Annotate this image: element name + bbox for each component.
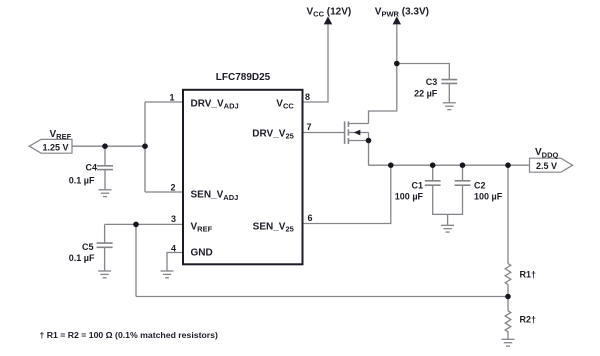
wire C1 top [432, 165, 434, 180]
junction node rail-R1 [505, 162, 511, 168]
svg-text:C1: C1 [411, 181, 423, 191]
IC U1 LFC789D25 body [183, 90, 303, 264]
ground under pin4 GND [161, 271, 174, 278]
svg-text:4: 4 [171, 244, 176, 254]
wire C4 top [104, 146, 106, 165]
transistor Q1 drain stub [348, 123, 368, 125]
output port VDDQ 2.5V [530, 158, 573, 172]
svg-text:C5: C5 [82, 242, 94, 252]
transistor Q1 body stub [348, 132, 368, 134]
wire output rail [369, 164, 530, 166]
svg-text:R1†: R1† [520, 270, 537, 280]
svg-text:C3: C3 [426, 77, 438, 87]
ground under R2 [502, 339, 515, 346]
wire C5 top [104, 224, 106, 242]
input port VREF 1.25V [29, 139, 72, 153]
wire R2 to ground [507, 331, 509, 339]
junction node R1-R2 feedback [505, 294, 511, 300]
wire pin8 to VCC [303, 25, 329, 103]
capacitor C3 plates [441, 80, 457, 84]
wire pin2 [145, 191, 183, 193]
wire C1 C2 bottoms joined to ground [433, 186, 463, 215]
svg-text:100 µF: 100 µF [395, 192, 424, 202]
wire rail to R1 [507, 165, 509, 263]
capacitor C4 plates [97, 166, 113, 170]
svg-text:GND: GND [191, 248, 213, 259]
svg-text:1.25 V: 1.25 V [43, 143, 69, 153]
wire pin4 to ground [167, 253, 183, 272]
resistor R1 zigzag [505, 264, 511, 285]
svg-text:0.1 µF: 0.1 µF [69, 176, 95, 186]
wire pin1 to vertical bus [145, 101, 183, 103]
power arrow VPWR [393, 16, 401, 24]
junction node rail-C2 [460, 162, 466, 168]
junction node VPWR-C3 [394, 61, 400, 67]
wire C3 bottom to ground [448, 84, 450, 103]
junction node rail-pin6 [388, 162, 394, 168]
transistor Q1 channel bars [347, 121, 349, 144]
wire R1 to node [507, 284, 509, 296]
wire VPWR node to C3 [397, 64, 450, 80]
junction node source-body [366, 138, 372, 144]
wire pin7 to gate [303, 132, 345, 134]
wire vertical bus pin1-pin2 [144, 102, 146, 192]
wire feedback vertical from pin3 node [135, 224, 137, 296]
svg-text:1: 1 [169, 93, 174, 103]
svg-text:C4: C4 [85, 163, 97, 173]
transistor Q1 source stub [348, 140, 368, 142]
capacitor C2 plates [455, 181, 471, 185]
capacitor C1 plates [425, 181, 441, 185]
junction node VREF-bus [142, 143, 148, 149]
svg-text:8: 8 [305, 92, 310, 102]
ground under C3 [443, 103, 456, 110]
svg-text:2: 2 [170, 183, 175, 193]
svg-text:LFC789D25: LFC789D25 [216, 72, 271, 83]
transistor Q1 body arrow [354, 130, 361, 136]
junction node pin3 feedback [133, 222, 139, 228]
svg-text:R2†: R2† [520, 315, 537, 325]
power arrow VCC [324, 16, 332, 24]
wire C1C2 ground stub [447, 214, 449, 225]
ground under C1 C2 [441, 225, 454, 232]
wire node to R2 [507, 297, 509, 311]
wire C4 bottom to ground [104, 170, 106, 190]
wire pin6 to rail riser [303, 165, 391, 223]
svg-text:6: 6 [308, 213, 313, 223]
svg-text:3: 3 [171, 214, 176, 224]
svg-text:† R1 = R2 = 100 Ω (0.1% matche: † R1 = R2 = 100 Ω (0.1% matched resistor… [40, 330, 218, 340]
wire C5 bottom to ground [104, 248, 106, 271]
ground under C5 [98, 271, 111, 278]
wire feedback horizontal to R divider [136, 296, 508, 298]
ground under C4 [99, 190, 112, 197]
svg-text:22 µF: 22 µF [414, 88, 438, 98]
svg-text:0.1 µF: 0.1 µF [69, 253, 95, 263]
wire VREF arrow to bus [72, 145, 145, 147]
wire source to output rail [368, 133, 370, 166]
svg-text:C2: C2 [474, 181, 486, 191]
resistor R2 zigzag [505, 311, 511, 332]
transistor Q1 MOSFET gate bar [344, 121, 346, 144]
junction node VREF-C4 [102, 143, 108, 149]
wire C2 top [462, 165, 464, 180]
svg-text:2.5 V: 2.5 V [536, 161, 557, 171]
wire VPWR vertical to drain [369, 25, 397, 124]
wire pin3 [105, 223, 183, 225]
svg-text:7: 7 [307, 122, 312, 132]
capacitor C5 plates [97, 243, 113, 247]
junction node rail-C1 [430, 162, 436, 168]
svg-text:100 µF: 100 µF [474, 192, 503, 202]
